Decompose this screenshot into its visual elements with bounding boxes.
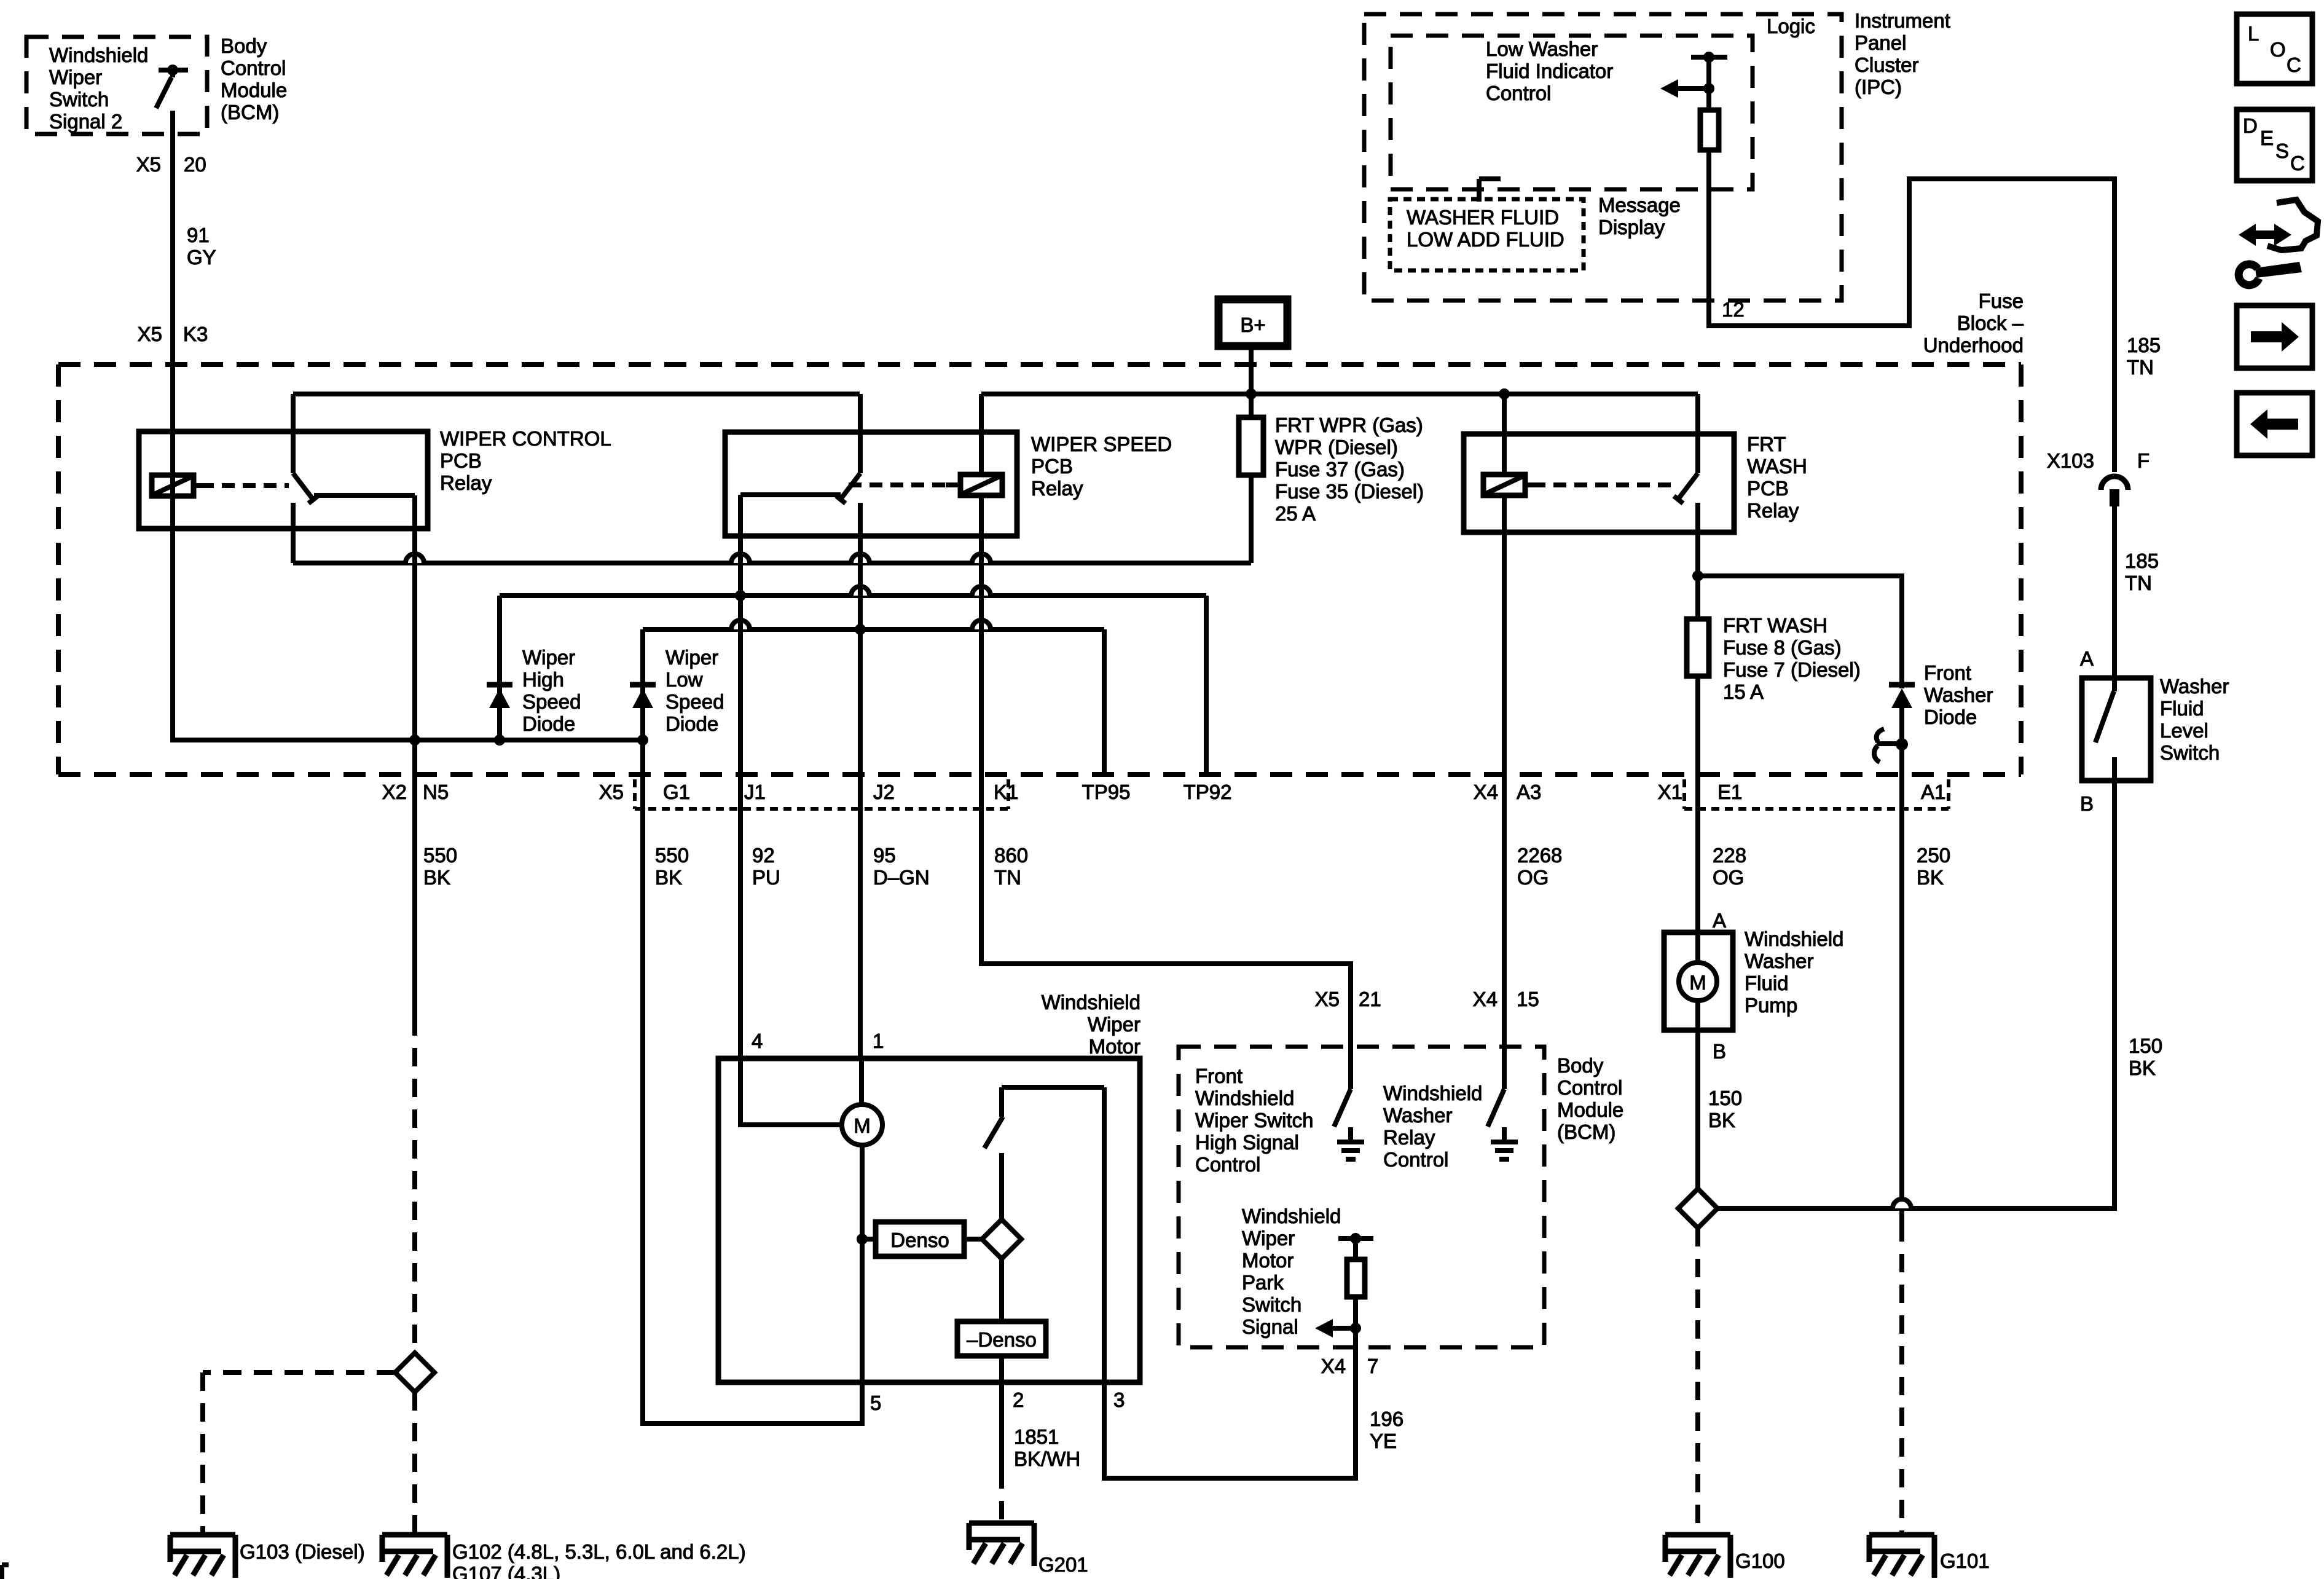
svg-text:Low Washer: Low Washer bbox=[1486, 37, 1598, 60]
svg-text:Instrument: Instrument bbox=[1855, 9, 1950, 32]
wire: pump B down to splice bbox=[1695, 1030, 1700, 1189]
svg-text:X4: X4 bbox=[1473, 988, 1498, 1010]
wire: IPC pin 12 to X103 bbox=[1709, 150, 2114, 472]
svg-text:Speed: Speed bbox=[665, 690, 724, 713]
svg-text:PCB: PCB bbox=[1747, 477, 1789, 500]
svg-text:92: 92 bbox=[752, 844, 775, 867]
node: rail C to J2 bbox=[855, 624, 866, 635]
svg-text:X1: X1 bbox=[1658, 781, 1682, 803]
icon: left arrow box bbox=[2237, 393, 2312, 455]
motor M symbol bbox=[859, 1058, 864, 1106]
svg-text:BK: BK bbox=[1917, 866, 1944, 889]
svg-text:Wiper: Wiper bbox=[49, 66, 102, 89]
svg-text:G103 (Diesel): G103 (Diesel) bbox=[240, 1540, 365, 1563]
svg-text:Diode: Diode bbox=[1924, 706, 1977, 728]
park switch blade bbox=[984, 1117, 1003, 1148]
svg-text:Pump: Pump bbox=[1745, 994, 1797, 1017]
svg-text:BK: BK bbox=[655, 866, 682, 889]
wire hop: rail A over J2 bbox=[851, 554, 870, 563]
fuse F8: FRT WASH 15A bbox=[1687, 619, 1709, 676]
relay U3 box: FRT WASH PCB Relay bbox=[1464, 434, 1734, 532]
svg-text:Relay: Relay bbox=[1031, 477, 1083, 500]
attachment bar in logic bbox=[1691, 55, 1727, 60]
svg-text:2: 2 bbox=[1013, 1388, 1024, 1411]
wire: high speed diode branch bbox=[497, 596, 502, 740]
svg-text:Windshield: Windshield bbox=[1242, 1205, 1341, 1227]
svg-text:YE: YE bbox=[1370, 1430, 1397, 1452]
svg-text:Level: Level bbox=[2160, 719, 2208, 742]
svg-text:G201: G201 bbox=[1038, 1553, 1088, 1576]
svg-text:G102 (4.8L, 5.3L, 6.0L and 6.2: G102 (4.8L, 5.3L, 6.0L and 6.2L) bbox=[452, 1540, 746, 1563]
connector X103 bbox=[2101, 476, 2128, 490]
svg-text:–Denso: –Denso bbox=[967, 1328, 1037, 1351]
svg-text:2268: 2268 bbox=[1517, 844, 1562, 867]
svg-text:FRT: FRT bbox=[1747, 433, 1786, 455]
svg-text:B: B bbox=[1713, 1040, 1726, 1063]
svg-text:X4: X4 bbox=[1321, 1355, 1346, 1377]
svg-text:Fuse 7 (Diesel): Fuse 7 (Diesel) bbox=[1723, 658, 1861, 681]
relay U2 switch common bbox=[858, 394, 863, 473]
svg-text:OG: OG bbox=[1517, 866, 1549, 889]
wire: branch to front washer diode bbox=[1698, 576, 1902, 688]
svg-text:Body: Body bbox=[221, 34, 267, 57]
svg-text:High: High bbox=[522, 668, 564, 691]
svg-text:Washer: Washer bbox=[1745, 950, 1813, 972]
pump motor M bbox=[1695, 932, 1700, 963]
svg-text:Panel: Panel bbox=[1855, 31, 1906, 54]
module box: Body Control Module (BCM) top-left - Windshield Wiper Switch Signal 2 bbox=[26, 37, 207, 134]
svg-text:PCB: PCB bbox=[440, 449, 482, 472]
resistor R1: low washer fluid indicator bbox=[1706, 110, 1711, 326]
svg-text:PU: PU bbox=[752, 866, 780, 889]
wire: A1 to G101 dashed bbox=[1899, 1223, 1904, 1535]
svg-text:D–GN: D–GN bbox=[873, 866, 930, 889]
wire: K1 860 TN relay2 coil to BCM bbox=[981, 495, 1351, 1047]
motor box: Windshield Wiper Motor bbox=[718, 1058, 1140, 1382]
park switch signal arrow bbox=[1350, 1323, 1361, 1334]
wire hop: rail A over J1 bbox=[731, 554, 750, 563]
svg-text:High Signal: High Signal bbox=[1195, 1131, 1299, 1154]
wire hop: rail C over K1 bbox=[972, 620, 991, 629]
svg-text:Body: Body bbox=[1557, 1054, 1604, 1077]
wire: 91 GY from BCM X5/20 to relay coil bbox=[170, 111, 175, 476]
switch: windshield washer relay control bbox=[1502, 1047, 1507, 1089]
svg-text:S: S bbox=[2275, 140, 2289, 162]
svg-text:20: 20 bbox=[184, 153, 206, 176]
relay U2 coil link dashed bbox=[946, 482, 960, 487]
wire: relay U2 coil top to B+ rail bbox=[979, 394, 984, 474]
relay U1 NO contact rail to N5 bbox=[314, 493, 415, 498]
svg-text:Relay: Relay bbox=[1747, 499, 1799, 522]
svg-text:1: 1 bbox=[873, 1030, 884, 1052]
svg-text:WPR (Diesel): WPR (Diesel) bbox=[1275, 436, 1398, 459]
svg-text:Park: Park bbox=[1242, 1271, 1284, 1294]
svg-text:Windshield: Windshield bbox=[1042, 991, 1140, 1014]
svg-text:150: 150 bbox=[2129, 1034, 2162, 1057]
svg-text:(BCM): (BCM) bbox=[221, 101, 279, 124]
wire: rail B high-speed diode to TP92 bbox=[500, 593, 1206, 598]
svg-text:Wiper: Wiper bbox=[665, 646, 718, 669]
svg-text:Windshield: Windshield bbox=[49, 44, 148, 66]
svg-text:Fuse 37 (Gas): Fuse 37 (Gas) bbox=[1275, 458, 1405, 481]
svg-text:250: 250 bbox=[1917, 844, 1950, 867]
wire hop: over A1/G101 wire bbox=[1893, 1199, 1911, 1208]
svg-text:550: 550 bbox=[423, 844, 457, 867]
svg-text:D: D bbox=[2243, 114, 2258, 137]
wire: B+ rail segment relay1 to relay2 common bbox=[293, 392, 860, 396]
svg-text:K3: K3 bbox=[183, 323, 208, 345]
svg-text:K1: K1 bbox=[994, 781, 1018, 803]
switch: washer fluid level bbox=[2112, 678, 2117, 691]
svg-text:Diode: Diode bbox=[522, 712, 575, 735]
svg-text:A1: A1 bbox=[1921, 781, 1945, 803]
svg-text:Windshield: Windshield bbox=[1383, 1082, 1482, 1105]
fuse F37: FRT WPR 25A bbox=[1239, 417, 1263, 475]
switch: windshield wiper switch signal 2 contact bbox=[159, 68, 188, 73]
svg-text:185: 185 bbox=[2125, 549, 2159, 572]
wire: park switch signal internal bbox=[1353, 1238, 1358, 1347]
svg-text:15: 15 bbox=[1517, 988, 1539, 1010]
svg-text:Speed: Speed bbox=[522, 690, 581, 713]
node: high speed diode junction bbox=[494, 734, 505, 746]
svg-text:WIPER CONTROL: WIPER CONTROL bbox=[440, 427, 611, 450]
node: low speed diode junction bbox=[637, 734, 648, 746]
power symbol: B+ battery feed bbox=[1219, 299, 1287, 346]
message display connection tab bbox=[1477, 179, 1482, 202]
svg-text:196: 196 bbox=[1370, 1408, 1403, 1430]
wire: B+ stub into fuse block bbox=[1249, 346, 1254, 394]
svg-text:X103: X103 bbox=[2047, 449, 2094, 472]
relay U1 coil on 91 GY wire bbox=[152, 475, 194, 496]
svg-text:Signal 2: Signal 2 bbox=[49, 110, 122, 133]
connector diamond in motor bbox=[982, 1219, 1021, 1259]
svg-text:Relay: Relay bbox=[1383, 1126, 1435, 1149]
svg-text:Fuse: Fuse bbox=[1979, 289, 2024, 312]
module box: Fuse Block - Underhood boundary bbox=[58, 362, 2021, 367]
ground: BCM internal (washer relay) bbox=[1502, 1127, 1507, 1142]
svg-text:Washer: Washer bbox=[1924, 683, 1993, 706]
svg-text:Module: Module bbox=[1557, 1098, 1623, 1121]
svg-text:TP92: TP92 bbox=[1184, 781, 1232, 803]
wire hop: rail B over K1 bbox=[972, 586, 991, 596]
svg-text:F: F bbox=[2137, 449, 2149, 472]
svg-text:Control: Control bbox=[1557, 1076, 1622, 1099]
svg-text:G1: G1 bbox=[663, 781, 690, 803]
svg-text:Underhood: Underhood bbox=[1923, 334, 2024, 356]
node: B+ junction bbox=[1246, 388, 1257, 400]
svg-text:Wiper: Wiper bbox=[1088, 1013, 1140, 1036]
wire: coil return line bbox=[173, 476, 643, 740]
relay U1 switch blade bbox=[293, 473, 313, 499]
svg-text:OG: OG bbox=[1713, 866, 1744, 889]
wire: dashed to G201 bbox=[999, 1470, 1004, 1523]
icon: DESC box bbox=[2237, 109, 2312, 181]
park switch contact bbox=[1002, 1085, 1104, 1090]
svg-text:B+: B+ bbox=[1240, 313, 1265, 336]
node: N5 junction bbox=[409, 734, 420, 746]
svg-text:G100: G100 bbox=[1735, 1549, 1785, 1572]
svg-text:Fluid: Fluid bbox=[2160, 697, 2204, 720]
svg-text:Front: Front bbox=[1195, 1065, 1242, 1087]
wire: 196 YE park switch signal to motor pin 3 bbox=[1104, 1347, 1356, 1478]
svg-text:A: A bbox=[1713, 909, 1726, 932]
wire: B+ rail segment coil side to FRT WASH relay bbox=[981, 392, 1698, 396]
relay U1 coil link dashed bbox=[194, 483, 201, 488]
svg-text:Windshield: Windshield bbox=[1745, 927, 1843, 950]
svg-text:Switch: Switch bbox=[1242, 1293, 1301, 1316]
svg-text:J1: J1 bbox=[744, 781, 766, 803]
diode D2: Wiper Low Speed Diode bbox=[630, 682, 656, 688]
svg-text:N5: N5 bbox=[423, 781, 449, 803]
svg-text:X5: X5 bbox=[1315, 988, 1340, 1010]
svg-text:228: 228 bbox=[1713, 844, 1746, 867]
svg-text:12: 12 bbox=[1722, 298, 1745, 321]
relay U3 coil on 2268 OG wire bbox=[1483, 474, 1525, 495]
node: FRT WASH coil junction bbox=[1499, 388, 1510, 400]
module box: Message Display bbox=[1390, 199, 1584, 270]
svg-text:Switch: Switch bbox=[2160, 741, 2220, 764]
wire: level switch B to splice bbox=[1717, 781, 2114, 1208]
wire: motor to brush junction bbox=[860, 1145, 865, 1382]
svg-text:BK: BK bbox=[2129, 1057, 2156, 1079]
wire: pin 4 to motor bbox=[740, 1058, 843, 1125]
svg-text:Washer: Washer bbox=[1383, 1104, 1452, 1127]
svg-text:Signal: Signal bbox=[1242, 1315, 1298, 1338]
svg-text:TN: TN bbox=[994, 866, 1021, 889]
node: rail B to J1 bbox=[735, 590, 746, 601]
relay U2 box: WIPER SPEED PCB Relay bbox=[725, 432, 1017, 536]
wire hop: rail B over J2 bbox=[851, 586, 870, 596]
svg-text:Cluster: Cluster bbox=[1855, 53, 1919, 76]
relay U1 switch common bbox=[291, 394, 296, 473]
svg-text:TN: TN bbox=[2125, 572, 2152, 594]
svg-text:91: 91 bbox=[187, 224, 210, 246]
switch: front windshield wiper switch high signal control bbox=[1348, 1047, 1353, 1089]
svg-text:PCB: PCB bbox=[1031, 455, 1073, 478]
svg-text:FRT WASH: FRT WASH bbox=[1723, 614, 1827, 637]
wire: 185 TN X103 to washer fluid level switch bbox=[2112, 505, 2117, 678]
wire: fuse feed B+ rail down to rail A bbox=[1249, 394, 1254, 563]
component: Denso bbox=[876, 1222, 964, 1256]
resistor R2: park switch signal bbox=[1347, 1259, 1365, 1297]
svg-text:LOW ADD FLUID: LOW ADD FLUID bbox=[1407, 228, 1564, 251]
svg-text:B: B bbox=[2080, 792, 2094, 815]
svg-text:C: C bbox=[2290, 152, 2305, 175]
svg-text:M: M bbox=[854, 1114, 871, 1137]
wire: J1 92 PU relay2 NO to motor pin 4 bbox=[738, 495, 743, 1058]
svg-text:21: 21 bbox=[1359, 988, 1381, 1010]
svg-text:Wiper: Wiper bbox=[522, 646, 575, 669]
wire hop: rail C over J1 bbox=[731, 620, 750, 629]
svg-text:O: O bbox=[2270, 38, 2286, 61]
svg-text:Logic: Logic bbox=[1767, 15, 1815, 37]
svg-text:Message: Message bbox=[1598, 194, 1681, 216]
svg-text:25 A: 25 A bbox=[1275, 502, 1316, 525]
wire: A3 2268 OG relay3 coil to BCM bbox=[1502, 394, 1507, 474]
relay U1 box: WIPER CONTROL PCB Relay bbox=[139, 431, 428, 529]
svg-text:Motor: Motor bbox=[1242, 1249, 1294, 1272]
diode D3: Front Washer Diode bbox=[1889, 682, 1915, 688]
svg-text:Relay: Relay bbox=[440, 471, 492, 494]
diode D1: Wiper High Speed Diode bbox=[487, 682, 512, 688]
wire: TP92 drop bbox=[1204, 596, 1209, 774]
relay U3 switch common bbox=[1695, 394, 1700, 473]
svg-text:X5: X5 bbox=[138, 323, 162, 345]
svg-text:G107 (4.3L): G107 (4.3L) bbox=[452, 1562, 560, 1579]
wire: diamond to -Denso bbox=[999, 1259, 1004, 1321]
svg-text:Windshield: Windshield bbox=[1195, 1087, 1294, 1109]
svg-text:15 A: 15 A bbox=[1723, 680, 1764, 703]
svg-text:Low: Low bbox=[665, 668, 703, 691]
svg-text:Fuse 35 (Diesel): Fuse 35 (Diesel) bbox=[1275, 480, 1424, 503]
ground G100 bbox=[1665, 1532, 1730, 1538]
svg-text:Module: Module bbox=[221, 79, 287, 101]
relay U2 switch blade bbox=[841, 473, 860, 499]
ground G102 bbox=[382, 1532, 447, 1538]
wire: to Denso box bbox=[862, 1237, 876, 1242]
wire: low speed diode / G1 branch upper bbox=[640, 629, 645, 778]
svg-text:4: 4 bbox=[752, 1030, 763, 1052]
svg-text:Diode: Diode bbox=[665, 712, 718, 735]
wire: splice to G102 dashed bbox=[412, 1392, 417, 1535]
ground G103 bbox=[170, 1532, 235, 1538]
svg-text:Control: Control bbox=[1486, 82, 1551, 104]
svg-text:Switch: Switch bbox=[49, 88, 109, 111]
svg-text:Control: Control bbox=[1195, 1153, 1260, 1176]
svg-text:X5: X5 bbox=[136, 153, 161, 176]
svg-text:Display: Display bbox=[1598, 216, 1665, 238]
wire: pin 2 1851 BK/WH bbox=[999, 1382, 1004, 1470]
clip symbol on A1 wire bbox=[1877, 729, 1884, 742]
page corner mark bbox=[0, 1565, 4, 1579]
svg-text:FRT WPR (Gas): FRT WPR (Gas) bbox=[1275, 414, 1423, 436]
svg-text:BK: BK bbox=[1708, 1109, 1735, 1132]
component: -Denso bbox=[957, 1321, 1046, 1356]
wire: splice to G100 dashed bbox=[1695, 1228, 1700, 1535]
wire: rail C low-speed diode to TP95 bbox=[643, 627, 1104, 632]
park switch signal attachment bbox=[1338, 1236, 1373, 1241]
svg-text:E: E bbox=[2260, 127, 2274, 149]
svg-text:150: 150 bbox=[1708, 1087, 1742, 1109]
node: E1 branch to front washer diode bbox=[1692, 570, 1703, 581]
wire: J2 95 D-GN relay2 NC to motor pin 1 bbox=[858, 503, 863, 1058]
svg-text:E1: E1 bbox=[1717, 781, 1742, 803]
svg-text:C: C bbox=[2287, 53, 2301, 76]
svg-text:BK/WH: BK/WH bbox=[1014, 1447, 1080, 1470]
svg-text:BK: BK bbox=[423, 866, 450, 889]
svg-text:Washer: Washer bbox=[2160, 675, 2229, 698]
svg-text:GY: GY bbox=[187, 246, 216, 269]
relay U3 coil link dashed bbox=[1525, 482, 1533, 487]
wire: A1 250 BK diode down bbox=[1899, 708, 1904, 1223]
wire hop: rail A over K1 bbox=[972, 554, 991, 563]
svg-text:A: A bbox=[2080, 647, 2094, 670]
icon: LOC box bbox=[2237, 14, 2312, 84]
svg-text:M: M bbox=[1689, 971, 1706, 994]
switch box: Washer Fluid Level Switch bbox=[2082, 678, 2151, 781]
wire: rail A relay1 NC to fuse output bbox=[293, 561, 1251, 565]
svg-text:X4: X4 bbox=[1474, 781, 1498, 803]
svg-text:Block –: Block – bbox=[1957, 312, 2024, 334]
svg-text:(IPC): (IPC) bbox=[1855, 76, 1902, 98]
connector bracket X1 bbox=[1682, 779, 1686, 809]
wire: E1 228 OG relay3 NC down bbox=[1695, 503, 1700, 932]
svg-text:185: 185 bbox=[2127, 334, 2161, 356]
module box: Instrument Panel Cluster (IPC) bbox=[1364, 14, 1842, 301]
svg-text:A3: A3 bbox=[1517, 781, 1541, 803]
svg-text:(BCM): (BCM) bbox=[1557, 1120, 1615, 1143]
ground: BCM internal (wiper high) bbox=[1348, 1127, 1353, 1142]
module box: Logic bbox=[1391, 36, 1753, 189]
svg-text:Fuse 8 (Gas): Fuse 8 (Gas) bbox=[1723, 636, 1842, 659]
splice: 550 BK ground splice diamond bbox=[395, 1353, 434, 1392]
relay U3 switch blade bbox=[1678, 473, 1698, 499]
svg-text:L: L bbox=[2248, 22, 2259, 45]
svg-text:Motor: Motor bbox=[1089, 1035, 1140, 1058]
wire hop: rail A over N5 bbox=[406, 554, 424, 563]
module box: Body Control Module (BCM) bottom bbox=[1179, 1047, 1544, 1347]
wire: Denso to diamond bbox=[964, 1237, 982, 1242]
wire: -Denso to pin 2 bbox=[999, 1356, 1004, 1382]
svg-text:95: 95 bbox=[873, 844, 896, 867]
ground G101 bbox=[1869, 1532, 1934, 1538]
svg-text:1851: 1851 bbox=[1014, 1425, 1059, 1448]
svg-text:7: 7 bbox=[1367, 1355, 1378, 1377]
svg-text:550: 550 bbox=[655, 844, 689, 867]
splice: ground splice diamond bbox=[1678, 1189, 1717, 1228]
svg-text:Control: Control bbox=[1383, 1148, 1448, 1171]
svg-text:Fluid: Fluid bbox=[1745, 972, 1789, 994]
svg-text:Control: Control bbox=[221, 57, 286, 79]
svg-text:3: 3 bbox=[1113, 1388, 1125, 1411]
svg-text:WIPER SPEED: WIPER SPEED bbox=[1031, 433, 1172, 455]
relay U1 NC stub bbox=[291, 503, 296, 563]
svg-text:860: 860 bbox=[994, 844, 1028, 867]
svg-text:J2: J2 bbox=[873, 781, 895, 803]
icon: right arrow box bbox=[2237, 305, 2312, 368]
svg-text:Wiper Switch: Wiper Switch bbox=[1195, 1109, 1314, 1132]
connector bracket X5 bbox=[633, 779, 637, 809]
svg-text:TP95: TP95 bbox=[1082, 781, 1131, 803]
icon: component-view arrows with wrench bbox=[2239, 224, 2291, 246]
svg-text:Front: Front bbox=[1924, 661, 1971, 684]
wire: logic internal bbox=[1706, 57, 1711, 110]
wire: N5 550 BK from relay1 NO contact bbox=[412, 495, 417, 1017]
wire: blade to diamond bbox=[999, 1153, 1004, 1219]
svg-text:Fluid Indicator: Fluid Indicator bbox=[1486, 60, 1613, 82]
pump box: Windshield Washer Fluid Pump bbox=[1664, 932, 1733, 1030]
svg-text:X5: X5 bbox=[599, 781, 624, 803]
wire: splice to G103 dashed bbox=[203, 1370, 395, 1375]
ground G201 bbox=[969, 1521, 1034, 1526]
svg-text:Denso: Denso bbox=[890, 1229, 949, 1251]
relay U2 NO contact rail to J1 bbox=[740, 492, 841, 497]
svg-text:WASHER FLUID: WASHER FLUID bbox=[1407, 206, 1559, 229]
svg-text:Wiper: Wiper bbox=[1242, 1227, 1295, 1250]
wire: park pin3 drop bbox=[1102, 1087, 1107, 1382]
svg-text:TN: TN bbox=[2127, 356, 2154, 379]
wire: G1 550 BK to motor pin 5 bbox=[643, 778, 862, 1423]
svg-text:X2: X2 bbox=[382, 781, 407, 803]
svg-text:G101: G101 bbox=[1940, 1549, 1990, 1572]
relay U2 coil bbox=[960, 474, 1002, 495]
svg-text:WASH: WASH bbox=[1747, 455, 1807, 478]
wire: TP95 drop bbox=[1102, 629, 1107, 774]
svg-text:5: 5 bbox=[870, 1392, 881, 1414]
indicator arrow bbox=[1703, 83, 1714, 94]
node: Denso junction bbox=[857, 1234, 868, 1245]
wire: N5 550 BK dashed to splice bbox=[412, 1017, 417, 1353]
